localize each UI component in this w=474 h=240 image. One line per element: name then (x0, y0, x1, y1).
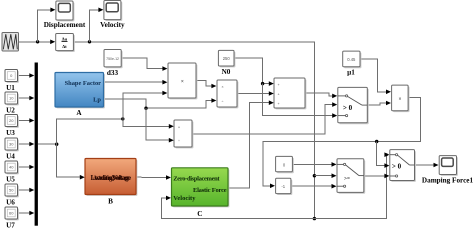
wire: U2 to mux (18, 96, 35, 101)
svg-text:+: + (278, 83, 280, 87)
wire: U1 to mux (18, 73, 35, 78)
constant N0 = 250 (218, 50, 235, 67)
label: U3 (6, 129, 15, 137)
svg-text:C: C (197, 210, 202, 218)
wire: feedback branch down to switch S3 input 2 (377, 142, 390, 168)
divider D1 (2-input) (217, 80, 238, 108)
wire: mux signal down to subsystem B input (57, 144, 85, 179)
label: mu1 (347, 68, 355, 76)
subsystem C: piezo force (green) (172, 168, 230, 208)
svg-text:10: 10 (9, 96, 14, 101)
constant U2 = 10 (5, 92, 19, 105)
svg-text:ActuatingVoltage: ActuatingVoltage (93, 175, 130, 182)
constant mu1 = 0.45 (343, 51, 362, 68)
svg-text:×: × (181, 79, 184, 85)
wire: switch S2 output to switch S3 input 3 (364, 174, 390, 179)
svg-text:30: 30 (9, 142, 14, 147)
wire: U5 to mux (18, 165, 35, 170)
svg-text:A: A (76, 109, 82, 117)
svg-text:×: × (178, 126, 180, 130)
wire: U7 to mux (18, 211, 35, 216)
label: C (197, 210, 202, 218)
label: U4 (6, 153, 15, 161)
wire: divider D2 output to switch S1 input 2 (192, 102, 337, 134)
switch S1 (> 0) (338, 87, 369, 124)
svg-text:Lp: Lp (93, 97, 101, 104)
wire: Elastic Force output up to sum block input 3 (228, 100, 274, 188)
wire: N0 constant down with junction to sum block input 1 (234, 58, 274, 86)
label: U2 (6, 107, 15, 115)
wire: switch S3 output to Damping Force scope (415, 163, 439, 168)
constant U7 = 60 (5, 207, 19, 220)
label: U1 (6, 84, 15, 92)
wire: mux branch down to divider D2 input 1 (123, 119, 174, 129)
scope: Damping Force (439, 156, 458, 176)
svg-text:U6: U6 (6, 199, 15, 207)
label: Damping Force (422, 176, 474, 184)
wire: subsystem B output to subsystem C input (136, 175, 171, 180)
wire: mu1 constant down to product P2 input 1 (360, 59, 391, 94)
mux bar (35, 63, 38, 226)
gain G1 = -1 (276, 178, 293, 195)
svg-text:Shape Factor: Shape Factor (65, 80, 102, 87)
constant U5 = 40 (5, 161, 19, 174)
svg-text:40: 40 (9, 165, 14, 170)
svg-text:750e-12: 750e-12 (106, 57, 119, 61)
svg-text:>=: >= (344, 176, 350, 182)
wire: sum block output to switch S1 input 1 (305, 93, 337, 98)
label: U6 (6, 199, 15, 207)
wire: velocity branch to switch S2 input 2 (313, 173, 337, 178)
svg-text:U3: U3 (6, 129, 15, 137)
signal generator source (2, 33, 19, 52)
wire: bottom velocity bus left to subsystem C Velocity input (161, 196, 316, 221)
wire: product P2 output feedback loop to gain G1 input (263, 98, 420, 189)
scope: Velocity (104, 1, 122, 22)
constant zero = 0 (276, 156, 294, 173)
label: B (108, 197, 113, 205)
scope: Displacement (56, 1, 75, 21)
wire: mux output with junction (38, 143, 59, 146)
svg-text:Displacement: Displacement (44, 21, 86, 29)
wire: N0 branch down to switch S1 input 3 (263, 84, 338, 118)
svg-text:50: 50 (9, 188, 14, 193)
subsystem B: Loading Voltage (orange) (85, 159, 137, 196)
wire: U4 to mux (18, 142, 35, 147)
wire: derivative output (velocity) long run right and down to bottom bus (73, 40, 314, 219)
wire: d33 constant to product P1 input 1 (121, 58, 167, 71)
product P1 (3-input multiply) (168, 63, 197, 99)
svg-text:Δu: Δu (62, 36, 68, 41)
wire: zero constant to switch S2 input 1 (292, 162, 336, 167)
label: N0 (222, 68, 231, 76)
wire: Lp output with junction to divider D1 input 2 (104, 98, 217, 110)
wire: bottom velocity bus right up to switch S3 input 1 (314, 152, 389, 218)
wire: branch up to Displacement scope (38, 8, 56, 42)
svg-text:> 0: > 0 (343, 104, 353, 112)
svg-text:N0: N0 (222, 68, 231, 76)
wire: branch up to Velocity scope (90, 8, 104, 42)
wire: Lp branch down to divider D2 input 2 (146, 108, 174, 142)
label: A (76, 109, 82, 117)
wire: signal generator output to derivative input (19, 40, 56, 45)
sum block (3-input) (274, 78, 306, 109)
svg-text:÷: ÷ (178, 139, 180, 143)
svg-text:×: × (222, 85, 224, 89)
wire: switch S1 output to product P2 input 2 (367, 101, 391, 106)
wire: product P1 output to divider D1 input 1 (196, 81, 216, 89)
derivative block du/dt (56, 34, 75, 53)
label: Displacement (44, 21, 86, 29)
svg-text:Δt: Δt (62, 44, 67, 49)
svg-text:U2: U2 (6, 107, 15, 115)
svg-text:µ1: µ1 (347, 68, 355, 76)
svg-text:20: 20 (9, 118, 14, 123)
label: d33 (107, 69, 119, 77)
svg-text:Elastic Force: Elastic Force (193, 187, 227, 194)
label: Velocity (100, 21, 125, 29)
svg-text:> 0: > 0 (392, 162, 402, 170)
wire: U6 to mux (18, 188, 35, 193)
svg-text:d33: d33 (107, 69, 119, 77)
product P2 (2-input multiply) (392, 85, 410, 112)
svg-text:U5: U5 (6, 176, 15, 184)
switch S3 (> 0) (390, 150, 416, 182)
svg-text:B: B (108, 197, 113, 205)
svg-text:U7: U7 (6, 222, 15, 229)
wire: Shape Factor output to product P1 input 2 (104, 80, 168, 85)
label: U7 (6, 222, 15, 230)
svg-text:-1: -1 (281, 184, 285, 189)
svg-text:Velocity: Velocity (173, 195, 196, 202)
divider D2 (2-input) (174, 120, 193, 148)
svg-text:×: × (399, 97, 402, 103)
constant U1 = 0 (5, 70, 19, 83)
wire: mux branch up to product P1 input 3 (123, 91, 168, 119)
svg-text:250: 250 (223, 56, 231, 61)
svg-text:Zero-displacement: Zero-displacement (173, 176, 220, 183)
wire: gain G1 output to switch S2 input 3 (291, 184, 337, 189)
constant U3 = 20 (5, 115, 19, 128)
svg-text:U4: U4 (6, 153, 15, 161)
constant U4 = 30 (5, 138, 19, 151)
svg-text:0.45: 0.45 (347, 57, 356, 62)
svg-text:+: + (278, 102, 280, 106)
wire: U3 to mux (18, 118, 35, 123)
svg-text:÷: ÷ (222, 100, 224, 104)
label: U5 (6, 176, 15, 184)
svg-text:U1: U1 (6, 84, 15, 92)
constant d33 = 750e-12 (104, 50, 123, 69)
svg-text:Damping Force1: Damping Force1 (422, 176, 474, 184)
svg-text:60: 60 (9, 211, 14, 216)
switch S2 (>= 0) (337, 159, 365, 194)
wire: divider D1 output to sum block input 2 (237, 91, 274, 96)
constant U6 = 50 (5, 184, 19, 197)
wire: mux signal up and right with junction node (57, 117, 125, 144)
svg-text:Velocity: Velocity (100, 21, 125, 29)
svg-text:+: + (278, 93, 280, 97)
subsystem A: Shape Factor (blue) (55, 73, 105, 109)
